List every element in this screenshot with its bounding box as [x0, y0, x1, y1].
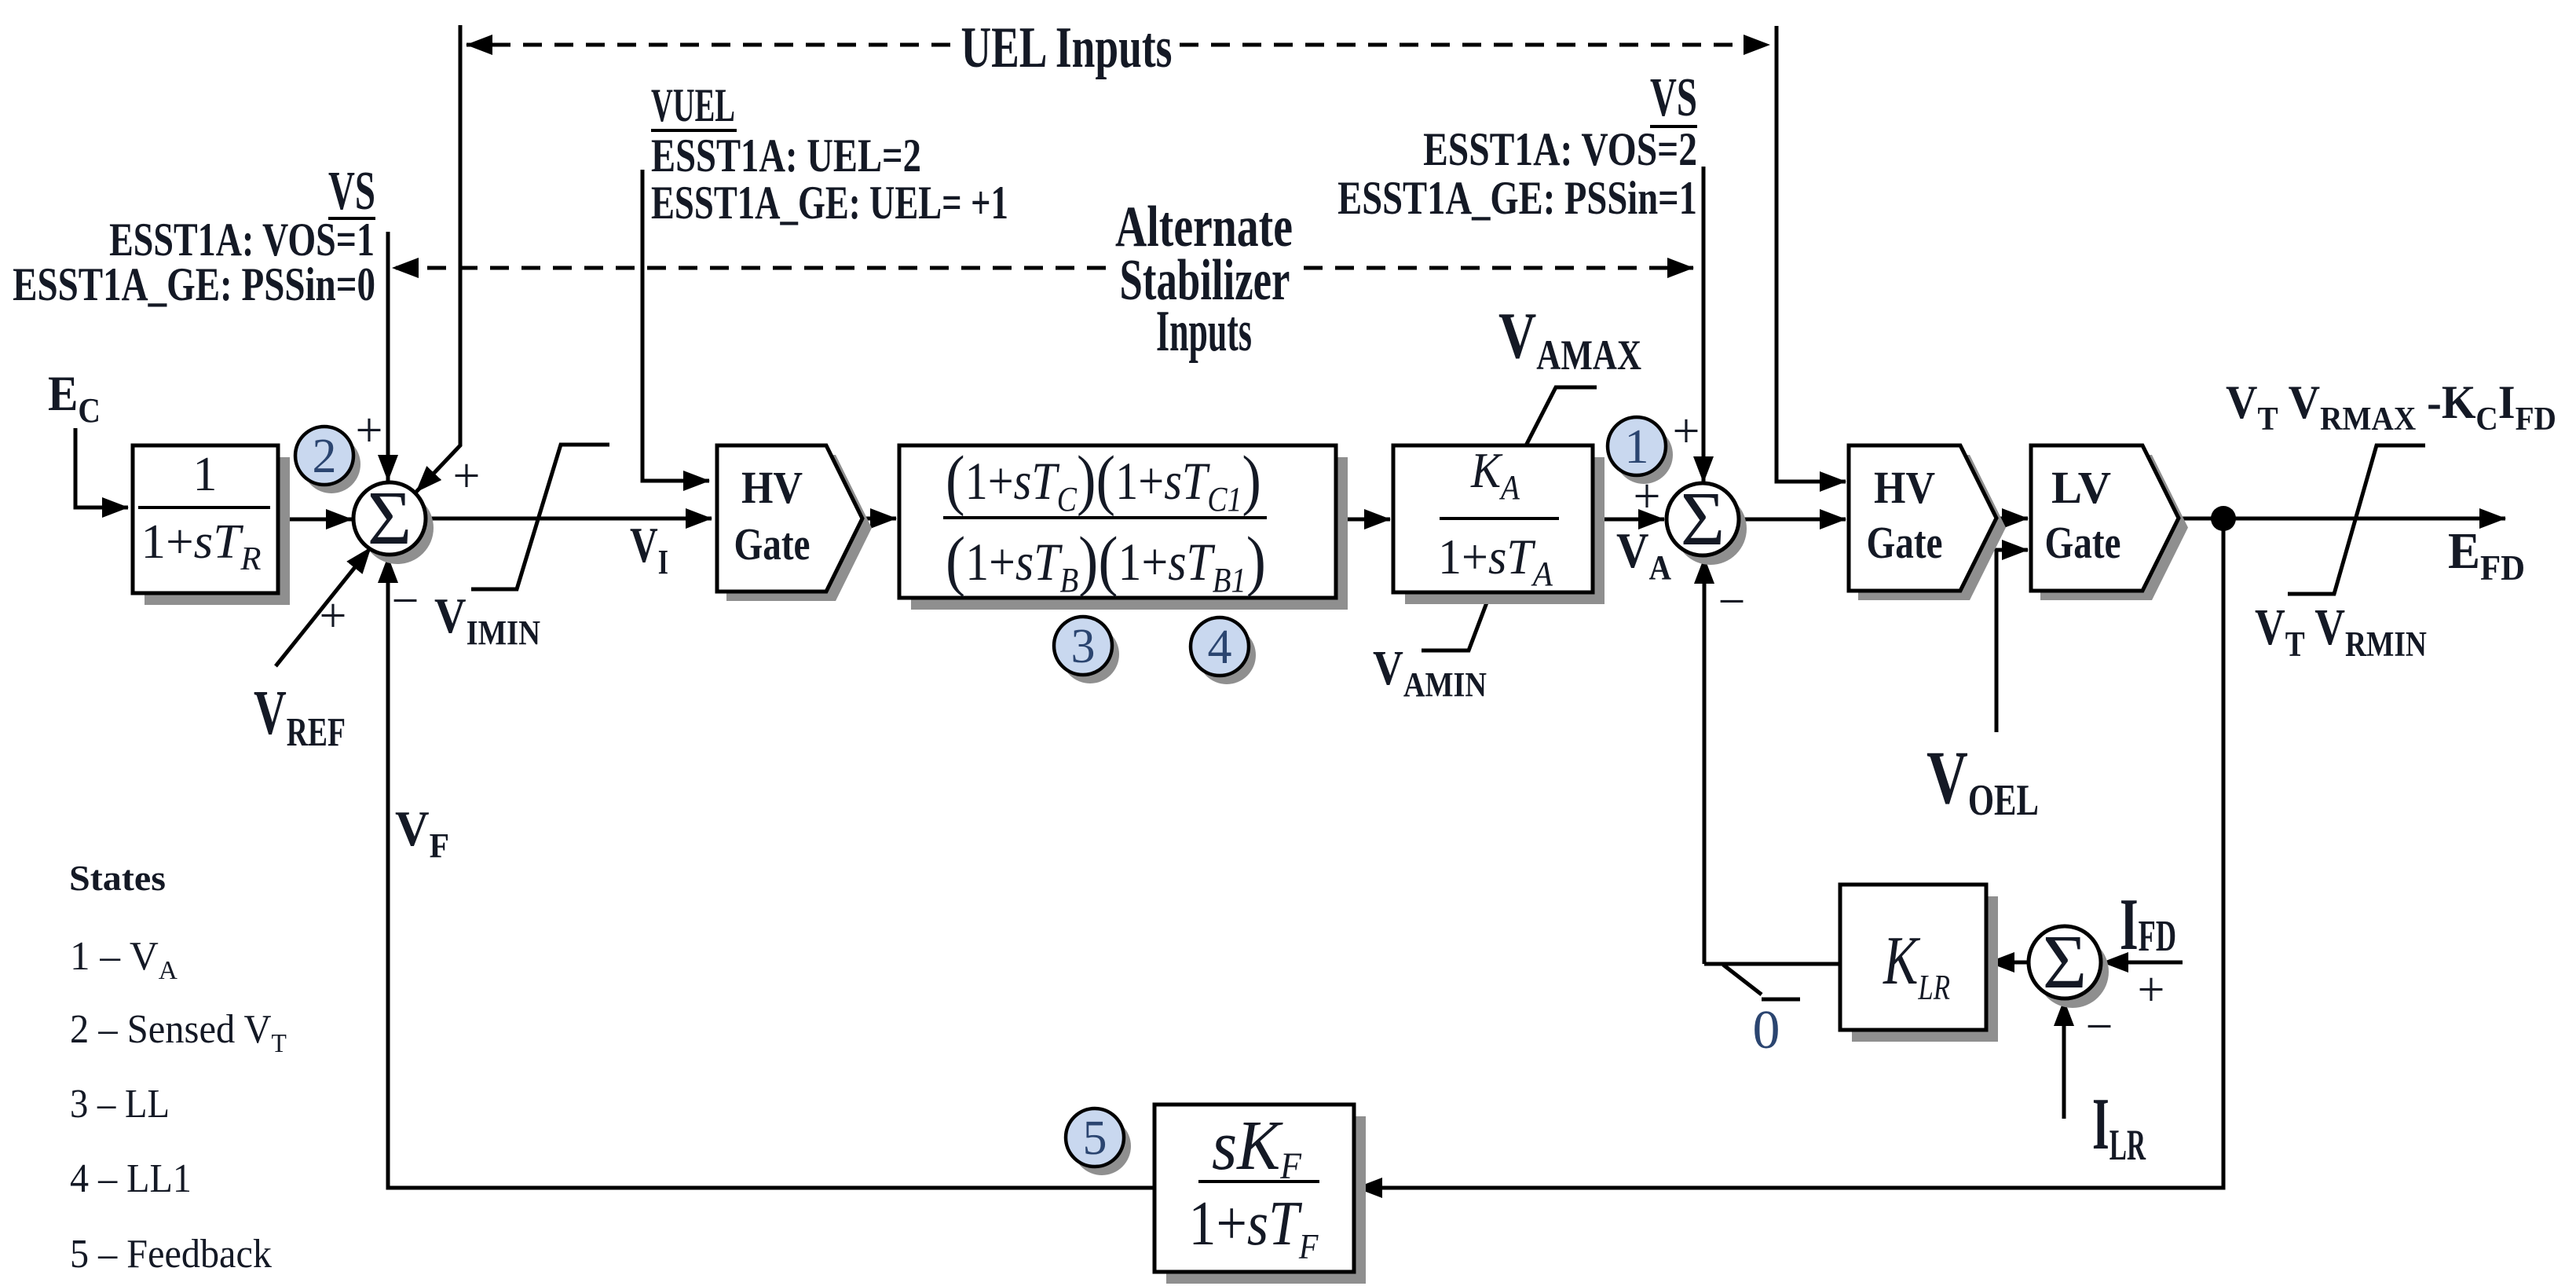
svg-text:Inputs: Inputs: [1156, 300, 1252, 364]
svg-text:1: 1: [193, 448, 218, 501]
svg-text:4: 4: [1208, 621, 1232, 674]
svg-text:ESST1A_GE: PSSin=0: ESST1A_GE: PSSin=0: [13, 258, 375, 311]
svg-text:−: −: [1718, 575, 1746, 628]
svg-text:3 – LL: 3 – LL: [70, 1081, 170, 1127]
svg-text:UEL Inputs: UEL Inputs: [961, 15, 1173, 80]
svg-text:ESST1A_GE: PSSin=1: ESST1A_GE: PSSin=1: [1337, 171, 1697, 224]
svg-text:ESST1A_GE: UEL= +1: ESST1A_GE: UEL= +1: [651, 178, 1008, 229]
svg-text:2: 2: [313, 430, 337, 483]
svg-text:3: 3: [1071, 620, 1096, 673]
svg-text:ESST1A: VOS=2: ESST1A: VOS=2: [1423, 123, 1697, 176]
svg-text:ESST1A: UEL=2: ESST1A: UEL=2: [651, 129, 921, 181]
svg-text:−: −: [2086, 1000, 2113, 1053]
svg-text:LV: LV: [2051, 462, 2111, 513]
svg-text:Σ: Σ: [1681, 477, 1725, 561]
svg-text:5 – Feedback: 5 – Feedback: [70, 1230, 273, 1276]
svg-text:Gate: Gate: [2044, 518, 2120, 569]
svg-text:Σ: Σ: [2043, 920, 2087, 1004]
svg-text:+: +: [1673, 405, 1700, 458]
svg-text:2 – Sensed VT: 2 – Sensed VT: [70, 1006, 287, 1058]
svg-text:States: States: [69, 859, 166, 899]
svg-text:VS: VS: [1650, 67, 1697, 128]
svg-text:HV: HV: [741, 462, 803, 512]
svg-text:0: 0: [1753, 1000, 1780, 1061]
svg-text:Gate: Gate: [1866, 518, 1942, 569]
svg-text:+: +: [2138, 963, 2165, 1017]
svg-text:+: +: [453, 449, 481, 503]
svg-text:+: +: [1634, 470, 1661, 523]
svg-text:+: +: [356, 404, 383, 457]
svg-text:HV: HV: [1874, 462, 1935, 512]
svg-text:1: 1: [1625, 420, 1649, 474]
svg-text:Σ: Σ: [368, 476, 412, 560]
svg-text:−: −: [392, 574, 419, 628]
svg-text:5: 5: [1083, 1112, 1107, 1165]
svg-text:VUEL: VUEL: [651, 79, 735, 131]
svg-text:+: +: [320, 589, 347, 643]
svg-text:VS: VS: [328, 160, 375, 222]
svg-text:4 – LL1: 4 – LL1: [70, 1155, 192, 1200]
svg-text:Gate: Gate: [734, 520, 810, 570]
